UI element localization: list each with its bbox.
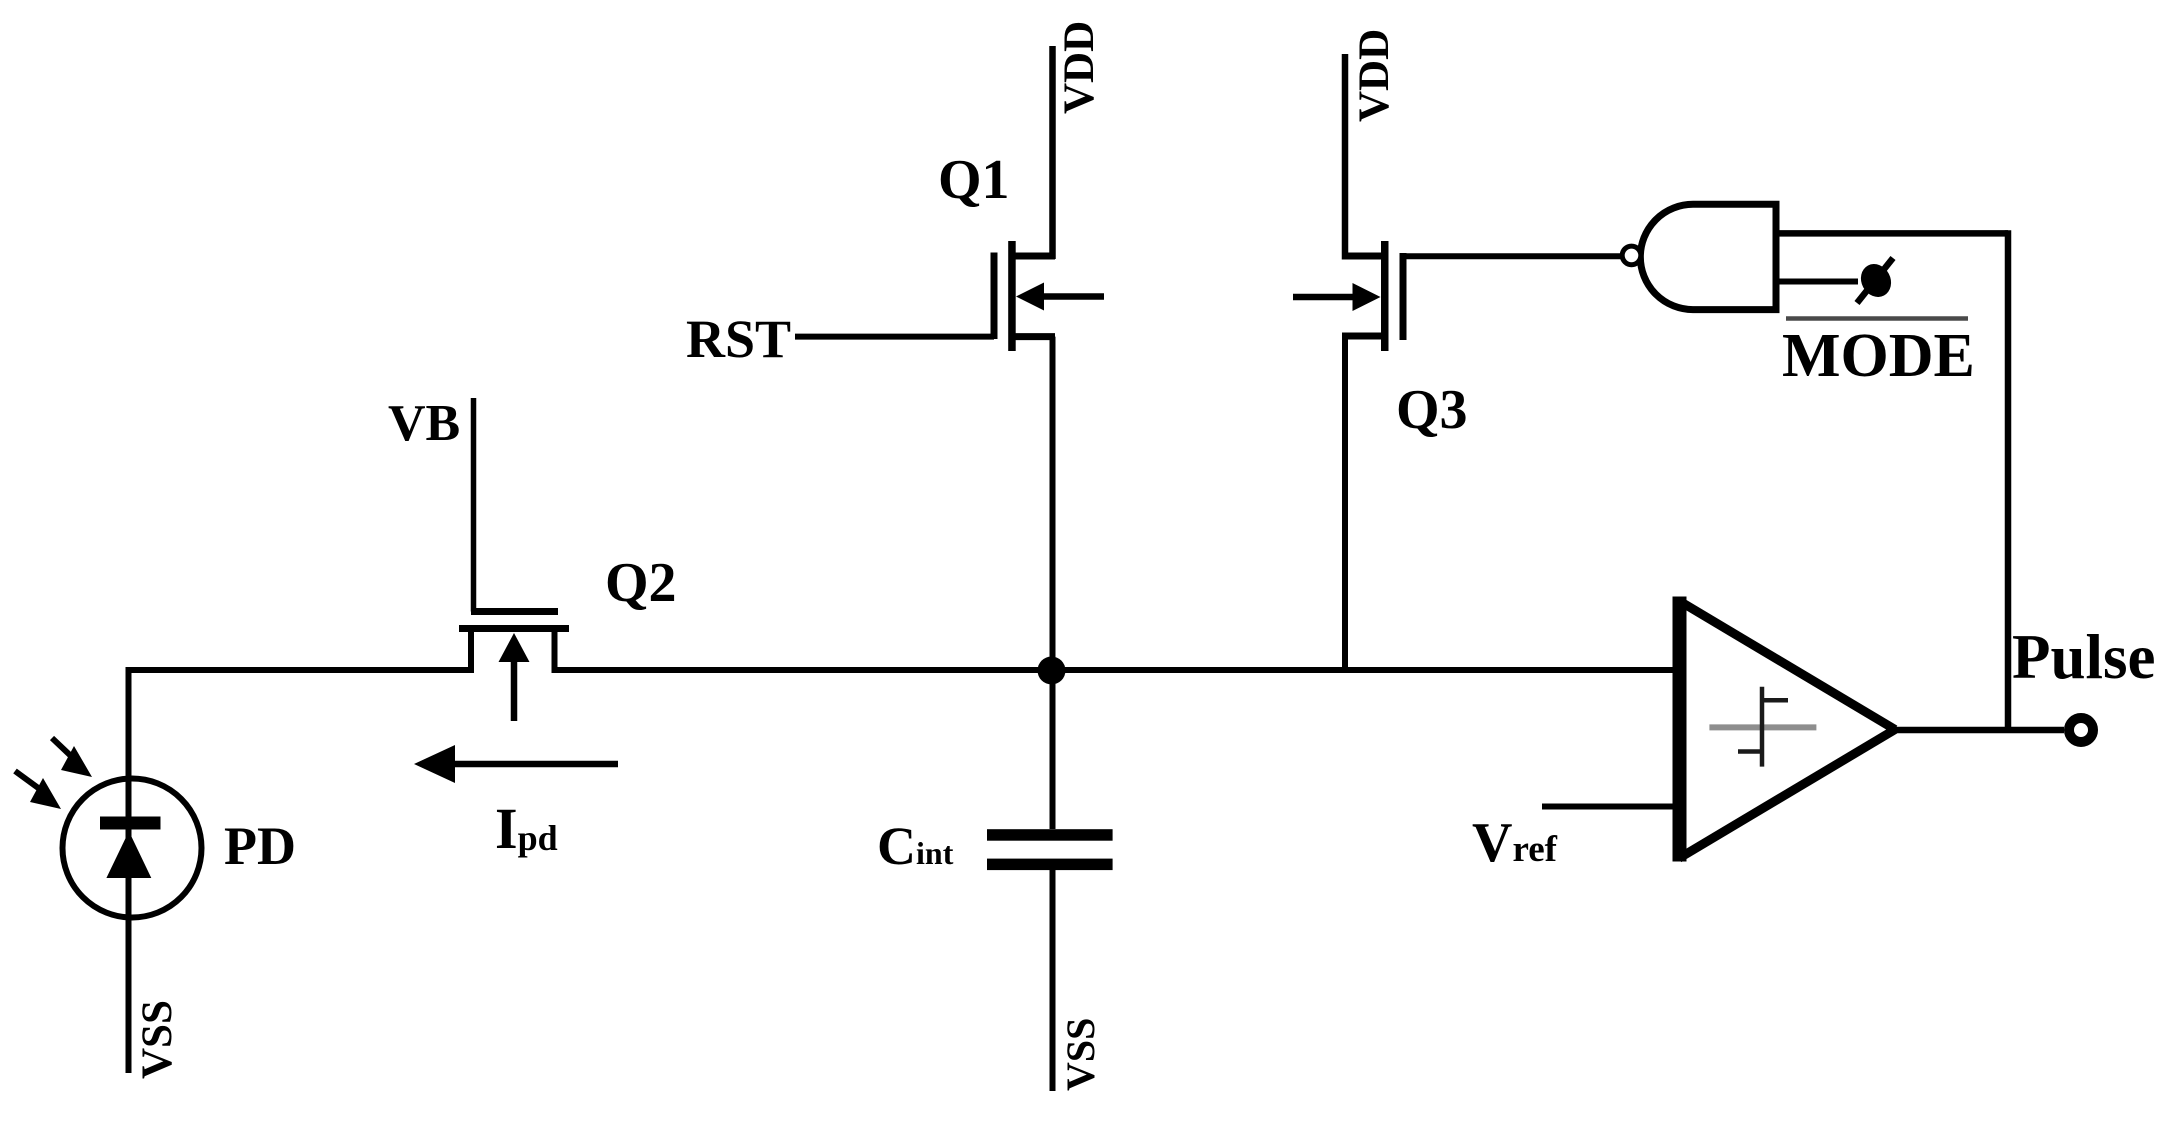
bottom plate (987, 859, 1113, 871)
light arrow 2 (15, 771, 61, 809)
NAND top input wire / feedback wire (1779, 230, 2008, 730)
VB wire (471, 398, 477, 612)
NAND gate U1 (mirrored, facing left) (1622, 204, 1776, 309)
svg-text:Ipd: Ipd (495, 796, 558, 861)
top plate (987, 829, 1113, 841)
svg-text:VSS: VSS (134, 1000, 181, 1079)
svg-text:Q2: Q2 (605, 552, 677, 614)
right stub (552, 629, 558, 673)
RST wire (795, 334, 994, 340)
svg-text:RST: RST (686, 309, 791, 369)
source (1342, 333, 1381, 340)
svg-text:VB: VB (388, 395, 460, 452)
wire Q3 gate to NAND bubble (1403, 253, 1622, 259)
svg-text:Q1: Q1 (938, 149, 1010, 211)
hysteresis symbol (1709, 687, 1816, 767)
source (1012, 333, 1055, 340)
hypotenuse bottom (1679, 730, 1895, 859)
transistor Q2 (459, 398, 569, 721)
wire (1050, 671, 1056, 829)
capacitor Cint (987, 671, 1113, 1091)
current arrow Ipd (414, 745, 618, 783)
hypotenuse top (1679, 601, 1895, 730)
bulk arrow (511, 662, 518, 721)
MODE overline (1786, 316, 1968, 321)
bulk arrow (1293, 294, 1356, 301)
svg-text:Pulse: Pulse (2012, 622, 2156, 692)
VDD wire (1342, 54, 1349, 260)
svg-text:PD: PD (224, 816, 296, 876)
wire (126, 667, 132, 1073)
photodiode PD (63, 667, 202, 1073)
svg-text:Q3: Q3 (1396, 379, 1468, 441)
drain (1342, 253, 1381, 260)
output bubble (1622, 246, 1641, 265)
transistor Q3 (1293, 54, 1407, 670)
comparator U2 (1679, 597, 1895, 862)
VDD wire (1049, 46, 1056, 259)
svg-text:Cint: Cint (877, 816, 954, 876)
gate bar (471, 608, 558, 615)
clock phi symbol (1855, 258, 1897, 303)
node wire left (PD to Q2) (126, 667, 472, 673)
channel bar (1008, 241, 1016, 351)
left edge (1673, 597, 1687, 862)
Pulse output terminal (2069, 718, 2093, 742)
node junction dot (1038, 657, 1066, 685)
channel bar (1381, 241, 1389, 351)
Vref input wire (1542, 804, 1679, 810)
NAND bottom input wire (1779, 279, 1858, 285)
source wire down (1050, 337, 1056, 671)
node wire main (Q2 to comparator) (555, 667, 1684, 673)
light arrow 1 (52, 738, 92, 777)
wire (1050, 870, 1056, 1091)
gate bar (1400, 253, 1407, 340)
gate bar (991, 253, 998, 340)
svg-text:Vref: Vref (1472, 812, 1558, 874)
source wire down (1342, 336, 1348, 670)
svg-text:VDD: VDD (1351, 29, 1398, 122)
transistor Q1 (991, 46, 1105, 671)
svg-text:VSS: VSS (1058, 1018, 1103, 1091)
svg-text:MODE: MODE (1782, 322, 1975, 390)
comparator output wire (1893, 727, 2064, 734)
svg-text:VDD: VDD (1056, 21, 1103, 114)
drain (1012, 253, 1055, 260)
channel bar (459, 625, 569, 632)
left stub (468, 629, 474, 673)
bulk arrow (1040, 293, 1104, 300)
